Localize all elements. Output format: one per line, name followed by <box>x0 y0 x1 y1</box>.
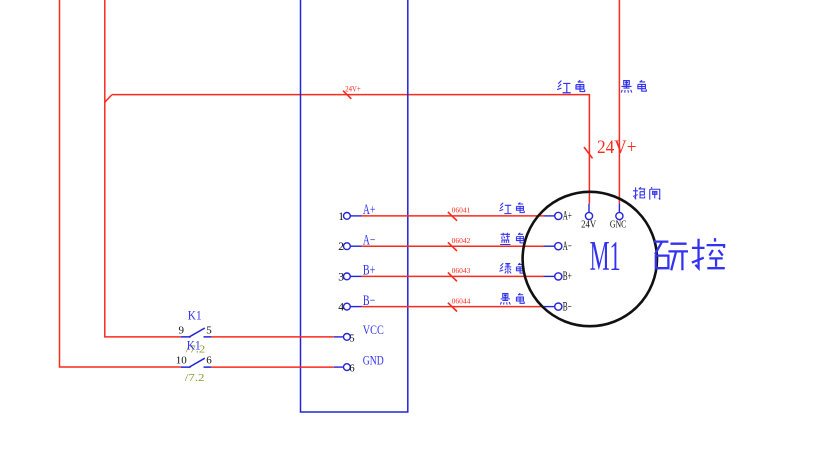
svg-text:M1: M1 <box>590 234 621 280</box>
svg-text:24V+: 24V+ <box>345 85 361 94</box>
switch K1 pole 9-5 <box>179 324 213 337</box>
motor terminal A+ <box>544 209 572 223</box>
wire: black motor brake GNC drop <box>618 0 620 204</box>
wire: 24V+ horizontal feed with branch diagonal <box>105 95 590 204</box>
wire: red 24V riser <box>105 0 181 337</box>
wire pin1 to motor A+ <box>362 215 545 217</box>
pin 1 A+ <box>338 202 375 223</box>
label 红色 row 1 <box>499 202 524 213</box>
svg-text:06041: 06041 <box>452 206 471 215</box>
svg-text:A+: A+ <box>563 209 572 223</box>
svg-text:24V: 24V <box>581 220 596 231</box>
svg-text:06044: 06044 <box>452 296 471 305</box>
pin 5 VCC <box>334 322 384 344</box>
motor terminal GNC <box>610 204 627 231</box>
motor label 研控 (YAKO) <box>654 238 725 270</box>
pin 4 B- <box>338 293 375 314</box>
svg-text:24V+: 24V+ <box>597 137 637 158</box>
svg-text:GND: GND <box>363 352 384 367</box>
label 黑色 (black) top <box>621 80 646 92</box>
svg-text:/7.2: /7.2 <box>185 373 205 384</box>
svg-text:5: 5 <box>206 324 212 336</box>
wire: red bus riser left <box>60 0 181 367</box>
pin 3 B+ <box>338 263 375 284</box>
label 黑色 row 4 <box>500 293 524 304</box>
label 抱闸 (brake) <box>633 187 660 200</box>
label 蓝色 row 2 <box>500 233 524 245</box>
svg-text:K1: K1 <box>188 308 202 323</box>
svg-text:B+: B+ <box>563 269 572 283</box>
svg-text:5: 5 <box>349 334 354 345</box>
wire pin4 to motor B- <box>362 306 545 308</box>
pin 6 GND <box>334 352 384 374</box>
switch K1 pole 10-6 <box>176 355 212 368</box>
svg-text:B−: B− <box>563 299 572 313</box>
svg-text:A−: A− <box>563 239 572 253</box>
svg-text:9: 9 <box>179 324 185 336</box>
wire label 06044 <box>448 296 471 311</box>
pin 2 A- <box>338 233 375 254</box>
svg-text:6: 6 <box>349 364 354 375</box>
wire switch K1-10/6 to pin 6 <box>211 366 333 368</box>
svg-text:K1: K1 <box>187 337 201 352</box>
svg-text:06043: 06043 <box>452 266 471 275</box>
motor terminal B+ <box>544 269 572 283</box>
wire switch K1-9/5 to pin 5 <box>211 336 333 338</box>
motor terminal 24V <box>581 204 596 231</box>
connector box (blue rectangle, open top) <box>301 0 408 412</box>
svg-text:GNC: GNC <box>610 220 627 231</box>
svg-text:06042: 06042 <box>452 236 471 245</box>
svg-text:6: 6 <box>206 355 212 367</box>
motor terminal B- <box>544 299 572 313</box>
motor terminal A- <box>544 239 572 253</box>
svg-text:VCC: VCC <box>363 322 384 337</box>
wire pin2 to motor A- <box>362 245 545 247</box>
wire label 06043 <box>448 266 471 281</box>
wire label 24V+ (small, with slash) <box>343 85 361 99</box>
wire pin3 to motor B+ <box>362 275 545 277</box>
wire label 06041 <box>448 206 471 221</box>
wire label 24V+ (large, with slash) <box>584 137 637 159</box>
svg-text:10: 10 <box>176 355 188 367</box>
motor M1 circle <box>523 192 657 326</box>
wire label 06042 <box>448 236 471 251</box>
label 红色 (red) top <box>557 80 585 92</box>
label 绿色 row 3 <box>499 263 524 274</box>
